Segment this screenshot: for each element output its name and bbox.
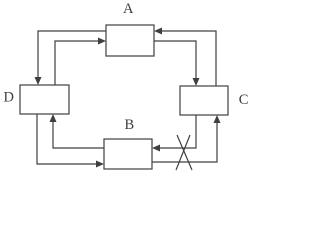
svg-text:B: B xyxy=(124,117,134,133)
svg-text:D: D xyxy=(3,90,13,106)
svg-text:A: A xyxy=(123,1,134,17)
svg-text:C: C xyxy=(239,92,249,108)
